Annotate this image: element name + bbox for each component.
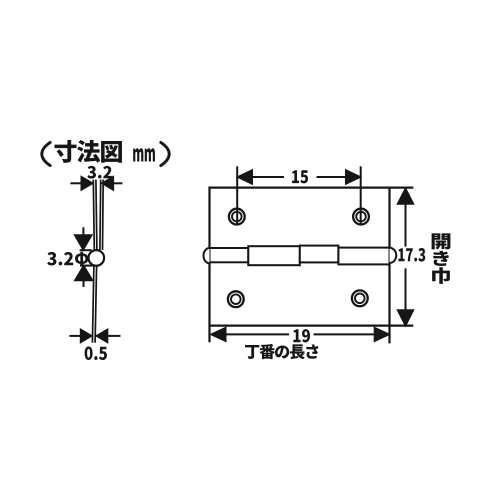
knuckle barrel segments (204, 246, 397, 266)
screw hole top-right (353, 209, 369, 225)
dimension 0.5 arrows (70, 330, 121, 342)
hinge plate outline (210, 187, 414, 344)
dimension 3.2dia lower arrow (75, 266, 93, 287)
dimension 3.2 arrows (70, 177, 122, 190)
dimension 17.3 line and label (398, 189, 413, 325)
dimension 15 line and label (238, 170, 360, 183)
label 0.5 (leaf thickness) (85, 346, 107, 360)
label 3.2 Phi (pin diameter) (47, 252, 88, 266)
label hiraki-haba (opening width, vertical) (432, 233, 451, 283)
label 3.2 (leaf pair width) (87, 166, 111, 179)
hinge leaf edge-on (lower lines) (92, 266, 96, 343)
label chouban no nagasa (hinge length) (245, 344, 318, 359)
hinge leaves edge-on (upper lines) (93, 180, 103, 250)
screw hole bottom-right (352, 290, 368, 306)
knuckle pin circle (side view) (89, 250, 105, 266)
dimension 3.2dia upper arrow (75, 227, 92, 250)
title text (寸法図 mm) (42, 140, 169, 166)
screw hole top-left (229, 209, 245, 225)
screw hole bottom-left (228, 291, 244, 307)
dimension 19 line and label (212, 328, 389, 341)
dimension 15 extension lines (237, 166, 361, 225)
